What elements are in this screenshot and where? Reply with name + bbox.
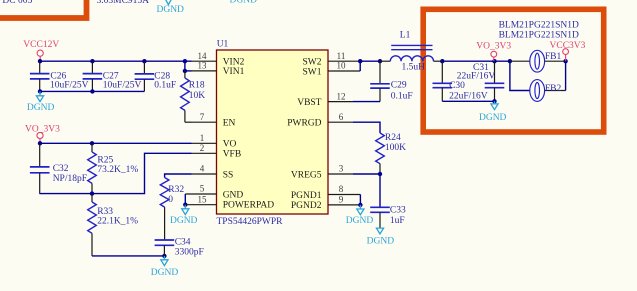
svg-text:0.1uF: 0.1uF: [154, 81, 176, 91]
svg-text:C33: C33: [390, 206, 406, 216]
svg-text:3.03MC915A: 3.03MC915A: [97, 0, 150, 6]
svg-text:9: 9: [339, 195, 344, 205]
wire L1 to output node: [442, 60, 510, 62]
svg-text:R24: R24: [385, 133, 401, 143]
svg-text:R32: R32: [168, 185, 184, 195]
capacitor C26: [30, 61, 89, 91]
svg-text:PWRGD: PWRGD: [287, 119, 321, 129]
wire rail to pin13 drop: [184, 61, 186, 71]
capacitor C28: [135, 61, 177, 91]
power flag VCC12V: [23, 40, 59, 61]
power flag VO_3V3 right: [476, 42, 511, 62]
svg-text:FB2: FB2: [545, 84, 562, 94]
svg-text:NP/18pF: NP/18pF: [53, 174, 87, 184]
svg-text:VIN2: VIN2: [223, 58, 245, 68]
svg-text:VO_3V3: VO_3V3: [476, 42, 511, 52]
svg-text:C29: C29: [391, 81, 407, 91]
wire VO net to pin1: [39, 142, 191, 144]
node junction C30 top: [440, 59, 444, 63]
node junction divider mid: [90, 191, 94, 195]
capacitor C32: [30, 143, 87, 193]
svg-text:SW2: SW2: [303, 58, 322, 68]
node junction VCC rail at C26: [38, 59, 42, 63]
node junction VCC rail at R18: [183, 59, 187, 63]
node junction GND pins: [183, 203, 187, 207]
pin 3 VREG5: [291, 164, 353, 181]
pin 6 PWRGD: [287, 112, 353, 129]
svg-text:TPS54426PWPR: TPS54426PWPR: [217, 217, 284, 227]
orange highlight box top-left: [0, 0, 87, 18]
pin 10 SW1: [303, 61, 361, 78]
power flag VCC3V3: [550, 41, 586, 61]
capacitor C27: [83, 61, 142, 91]
wire GND pins join: [184, 194, 186, 205]
capacitor C31: [457, 61, 505, 101]
svg-text:100K: 100K: [385, 143, 406, 153]
pin 8 PGND1: [291, 184, 361, 201]
resistor R18: [181, 71, 206, 122]
wire capacitor ground rail: [39, 90, 144, 92]
pin 13 VIN1: [192, 61, 245, 78]
svg-text:1uF: 1uF: [390, 216, 405, 226]
svg-text:VREG5: VREG5: [291, 170, 322, 180]
node junction gnd rail C27: [90, 89, 94, 93]
capacitor C34: [155, 237, 204, 257]
node junction pin13: [183, 69, 187, 73]
svg-text:10K: 10K: [189, 91, 206, 101]
wire VREG5 node: [353, 173, 380, 175]
svg-text:PGND1: PGND1: [291, 191, 322, 201]
svg-text:14: 14: [198, 51, 208, 61]
svg-text:3300pF: 3300pF: [175, 248, 204, 258]
pin 15 POWERPAD: [185, 194, 274, 210]
wire C29 to VBST pin: [353, 101, 380, 103]
svg-text:22uF/16V: 22uF/16V: [457, 72, 496, 82]
svg-text:VFB: VFB: [223, 150, 241, 160]
svg-text:DGND: DGND: [346, 216, 374, 226]
resistor R33: [88, 194, 138, 256]
node junction C31 top: [492, 59, 496, 63]
svg-text:DGND: DGND: [230, 0, 258, 6]
wire FB right branch: [565, 61, 567, 90]
wire VCC12V rail: [39, 60, 191, 62]
node junction SW: [358, 59, 362, 63]
pin 9 PGND2: [291, 195, 361, 212]
ground DGND top: [156, 0, 184, 15]
svg-text:10: 10: [337, 61, 347, 71]
pin 12 VBST: [297, 91, 353, 108]
svg-text:11: 11: [337, 51, 346, 61]
svg-text:13: 13: [198, 61, 208, 71]
svg-text:DC 005: DC 005: [2, 0, 32, 6]
svg-text:POWERPAD: POWERPAD: [223, 201, 275, 211]
node junction PGND: [358, 203, 362, 207]
svg-text:12: 12: [337, 91, 346, 101]
svg-text:1: 1: [200, 133, 205, 143]
ground DGND below C33: [367, 228, 395, 247]
wire R33 bottom to C34 node: [92, 255, 164, 257]
svg-text:0: 0: [168, 195, 173, 205]
capacitor C30: [433, 61, 488, 101]
wire SW node to L1: [360, 60, 380, 62]
node junction C34 ground node: [162, 254, 166, 258]
pin 14 VIN2: [192, 51, 245, 68]
svg-text:73.2K_1%: 73.2K_1%: [97, 165, 138, 175]
svg-text:FB1: FB1: [545, 52, 562, 62]
svg-text:VBST: VBST: [297, 98, 321, 108]
svg-text:DGND: DGND: [156, 5, 184, 15]
svg-text:7: 7: [200, 112, 205, 122]
svg-text:3: 3: [339, 164, 344, 174]
ground DGND below PGND: [346, 205, 374, 226]
node junction SW-C29-L1: [378, 59, 382, 63]
svg-text:VO: VO: [223, 140, 237, 150]
pin 2 VFB: [192, 143, 242, 160]
node junction gnd rail C26: [38, 89, 42, 93]
svg-text:15: 15: [198, 194, 208, 204]
svg-text:C32: C32: [53, 164, 69, 174]
svg-text:GND: GND: [223, 190, 244, 200]
capacitor C29 bootstrap: [370, 61, 413, 101]
resistor R24: [376, 133, 406, 174]
node junction VO at R25: [90, 141, 94, 145]
node junction VO at C32: [38, 141, 42, 145]
orange highlight box right: [423, 9, 604, 132]
wire PWRGD to R24: [353, 122, 380, 133]
svg-text:DGND: DGND: [27, 103, 55, 113]
svg-text:R33: R33: [97, 207, 113, 217]
svg-text:L1: L1: [400, 31, 411, 41]
svg-text:0.1uF: 0.1uF: [391, 92, 413, 102]
pin 1 VO: [192, 133, 237, 150]
wire PGND pins join: [359, 195, 361, 205]
svg-text:EN: EN: [223, 119, 236, 129]
resistor R32: [160, 178, 184, 240]
ground DGND below C31: [479, 101, 507, 123]
svg-text:6: 6: [339, 112, 344, 122]
node junction output gnd: [492, 99, 496, 103]
ground DGND below GND pin: [170, 205, 198, 226]
svg-text:5: 5: [200, 184, 205, 194]
wire R18 to EN pin: [185, 121, 192, 123]
svg-text:SW1: SW1: [303, 67, 322, 77]
ferrite bead FB1: [510, 50, 566, 72]
svg-text:BLM21PG221SN1D: BLM21PG221SN1D: [499, 31, 579, 41]
svg-text:1.5uH: 1.5uH: [402, 63, 426, 73]
svg-text:2: 2: [200, 143, 205, 153]
svg-text:PGND2: PGND2: [291, 201, 322, 211]
svg-text:22uF/16V: 22uF/16V: [449, 92, 488, 102]
node junction VREG5: [378, 172, 382, 176]
pin 5 GND: [185, 184, 243, 201]
svg-text:BLM21PG221SN1D: BLM21PG221SN1D: [499, 21, 579, 31]
wire SW pins join: [359, 61, 361, 71]
svg-text:U1: U1: [217, 40, 229, 50]
pin 4 SS: [192, 164, 234, 181]
svg-text:DGND: DGND: [479, 113, 507, 123]
svg-text:DGND: DGND: [151, 268, 179, 278]
node junction VCC rail at C28: [142, 59, 146, 63]
svg-text:C34: C34: [175, 237, 191, 247]
svg-text:R18: R18: [189, 80, 205, 90]
svg-text:8: 8: [339, 184, 344, 194]
pin 7 EN: [192, 112, 236, 129]
node junction FB branch: [508, 59, 512, 63]
svg-text:VIN1: VIN1: [223, 67, 245, 77]
wire pin13 stub link: [185, 70, 192, 72]
ground DGND below C34: [151, 256, 179, 278]
wire FB left branch: [510, 61, 530, 90]
svg-text:C30: C30: [449, 81, 465, 91]
svg-text:SS: SS: [223, 170, 234, 180]
svg-text:DGND: DGND: [170, 216, 198, 226]
ferrite bead FB2: [530, 80, 566, 102]
node junction VCC rail at C27: [90, 59, 94, 63]
wire output cap ground rail: [442, 100, 494, 102]
wire SS pin to R32: [165, 174, 192, 178]
ground DGND below C26: [27, 91, 55, 113]
pin 11 SW2: [303, 51, 361, 68]
capacitor C33: [370, 174, 406, 228]
svg-text:4: 4: [200, 164, 205, 174]
op IC U1 TPS54426PWPR body: [217, 40, 329, 228]
wire VFB divider rail: [39, 153, 191, 193]
power flag VO_3V3 left: [25, 125, 60, 144]
inductor L1: [380, 31, 442, 73]
svg-text:DGND: DGND: [367, 237, 395, 247]
node junction VCC3V3: [563, 59, 567, 63]
resistor R25: [88, 143, 139, 193]
svg-text:10uF/25V: 10uF/25V: [103, 81, 142, 91]
svg-text:22.1K_1%: 22.1K_1%: [97, 217, 138, 227]
svg-text:VCC12V: VCC12V: [23, 40, 59, 50]
svg-text:10uF/25V: 10uF/25V: [50, 81, 89, 91]
